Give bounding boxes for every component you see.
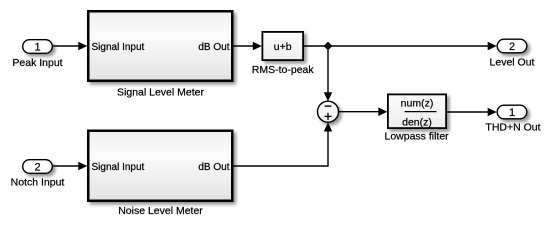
subsystem Noise Level Meter [88, 131, 232, 217]
svg-text:Lowpass filter: Lowpass filter [384, 130, 449, 142]
inport 1 Peak Input [12, 40, 62, 69]
svg-text:Signal Input: Signal Input [92, 42, 145, 53]
wire junction to sum minus input [324, 46, 333, 101]
svg-text:Signal Level Meter: Signal Level Meter [117, 86, 204, 98]
svg-text:Notch Input: Notch Input [11, 177, 65, 189]
svg-text:Noise Level Meter: Noise Level Meter [118, 205, 203, 217]
svg-text:num(z): num(z) [401, 98, 434, 110]
svg-text:Level Out: Level Out [490, 57, 535, 69]
node junction on Level Out wire [324, 42, 333, 51]
svg-text:den(z): den(z) [402, 117, 432, 129]
wire Signal Level Meter to RMS-to-peak [234, 42, 262, 51]
svg-text:Signal Input: Signal Input [92, 162, 145, 173]
svg-text:THD+N Out: THD+N Out [485, 121, 540, 133]
wire Peak Input to Signal Level Meter [53, 42, 87, 51]
svg-text:1: 1 [509, 107, 515, 119]
bias block U1 RMS-to-peak (u+b) [252, 32, 315, 76]
svg-text:1: 1 [34, 41, 40, 53]
wire sum to Lowpass filter [339, 107, 388, 116]
filter block Lowpass filter (num(z)/den(z)) [384, 94, 449, 142]
svg-text:u+b: u+b [274, 41, 292, 53]
wire Noise Level Meter to sum plus input [234, 123, 333, 167]
outport 1 THD+N Out [485, 105, 540, 133]
wire Notch Input to Noise Level Meter [53, 162, 87, 171]
svg-text:RMS-to-peak: RMS-to-peak [252, 64, 315, 76]
inport 2 Notch Input [11, 160, 65, 189]
svg-text:dB Out: dB Out [198, 162, 229, 173]
subsystem Signal Level Meter [88, 11, 232, 98]
svg-text:dB Out: dB Out [198, 42, 229, 53]
wire Lowpass filter to THD+N Out [447, 108, 497, 117]
sum block [318, 101, 339, 122]
wire RMS-to-peak to Level Out [304, 42, 497, 51]
outport 2 Level Out [490, 39, 535, 68]
svg-text:Peak Input: Peak Input [12, 57, 62, 69]
svg-text:2: 2 [509, 41, 515, 53]
svg-text:2: 2 [34, 161, 40, 173]
